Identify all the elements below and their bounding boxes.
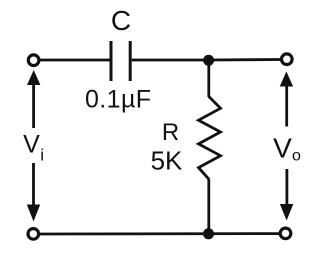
- terminal top-right: [282, 54, 293, 65]
- capacitor C1 plates: [111, 41, 130, 81]
- resistor R1 zigzag: [199, 97, 221, 180]
- node A (junction dot top): [203, 55, 214, 66]
- svg-text:o: o: [292, 148, 301, 165]
- Vo measurement arrow shaft lower: [285, 169, 288, 206]
- Vo measurement arrow shaft upper: [285, 86, 288, 127]
- wire resistor to node B: [207, 179, 210, 234]
- Vi measurement arrow shaft upper: [32, 82, 35, 128]
- Vi arrowhead down: [27, 205, 40, 222]
- wire node A down to resistor: [207, 60, 210, 97]
- wire bottom rail: [40, 232, 280, 235]
- Vi arrowhead up: [27, 70, 40, 85]
- svg-text:5K: 5K: [151, 146, 183, 176]
- Vo arrowhead down: [280, 204, 293, 221]
- terminal bottom-right: [280, 228, 291, 239]
- svg-text:0.1µF: 0.1µF: [85, 86, 151, 114]
- Vi measurement arrow shaft lower: [32, 163, 35, 206]
- svg-text:V: V: [273, 133, 292, 164]
- terminal bottom-left: [28, 229, 39, 240]
- terminal top-left: [28, 55, 39, 66]
- svg-text:C: C: [111, 5, 131, 36]
- wire node A to output terminal: [208, 58, 281, 61]
- wire capacitor to node A: [132, 59, 208, 62]
- svg-text:V: V: [23, 131, 40, 159]
- node B (junction dot bottom): [203, 228, 214, 239]
- wire top-left (input terminal to capacitor): [40, 59, 110, 62]
- Vo arrowhead up: [280, 72, 293, 87]
- svg-text:i: i: [40, 146, 44, 165]
- svg-text:R: R: [162, 119, 179, 146]
